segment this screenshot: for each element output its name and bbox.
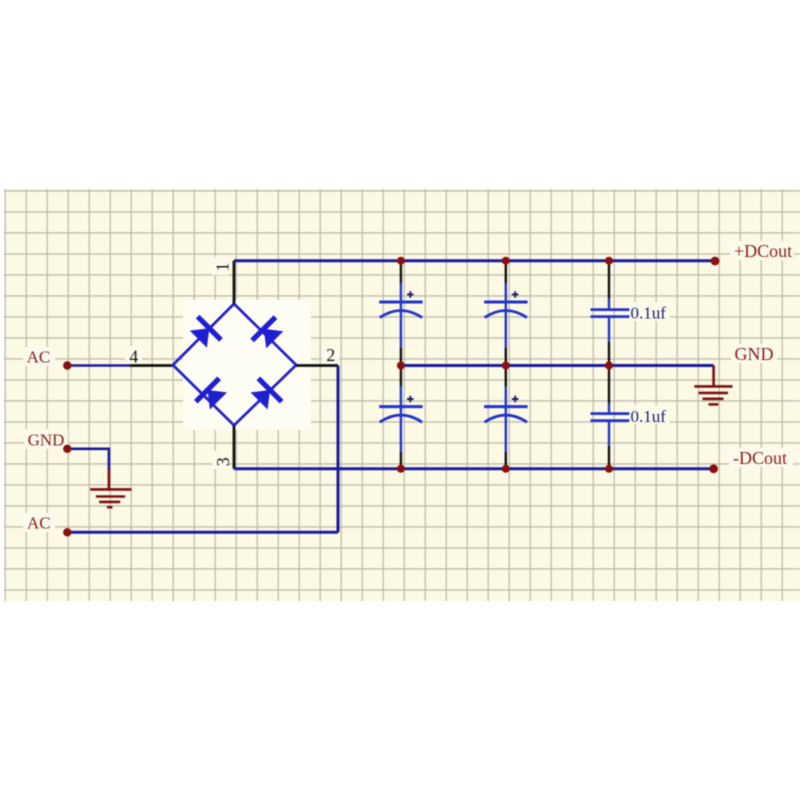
capacitor C2 leads (x=505.8 top) [505, 262, 507, 364]
wire AC2 vertical [337, 366, 340, 533]
capacitor C4 leads (x=505.8 bottom) [505, 367, 507, 468]
ground symbol left [90, 469, 131, 507]
ground symbol right [694, 366, 732, 405]
svg-text:GND: GND [735, 344, 774, 364]
terminal dots left [63, 361, 71, 536]
svg-text:-DCout: -DCout [733, 448, 787, 468]
diode D4 (lower-right edge, points NE) [247, 378, 281, 412]
capacitor C5 leads (0.1uf top) [608, 262, 610, 364]
svg-text:2: 2 [326, 345, 335, 365]
wire AC1 to bridge [67, 364, 130, 367]
capacitor C4 plates [484, 407, 527, 423]
svg-text:0.1uf: 0.1uf [631, 407, 667, 426]
pin 1 (black stub up) [233, 261, 236, 304]
svg-text:0.1uf: 0.1uf [631, 304, 667, 323]
diode D1 (lower-left of top corner, points NE) [187, 317, 221, 351]
wire GND left [67, 449, 109, 469]
svg-text:4: 4 [129, 346, 138, 366]
GND rail [401, 364, 714, 367]
svg-text:+DCout: +DCout [734, 241, 792, 261]
junction dots +DC rail [397, 257, 719, 266]
capacitor C3 plates [379, 407, 422, 423]
svg-text:1: 1 [213, 263, 233, 272]
bridge component background [183, 300, 311, 430]
pin 4 (black stub) [130, 364, 173, 367]
svg-text:3: 3 [213, 457, 233, 466]
diode D2 (upper-right edge, points NW) [252, 317, 286, 351]
pin 2 (black stub right) [296, 364, 338, 367]
diode D3 (lower-left edge, points NW) [196, 378, 230, 412]
diode bridge outline [173, 304, 296, 426]
+DC rail [234, 259, 715, 262]
capacitor C6 leads (0.1uf bottom) [608, 367, 610, 468]
capacitor C1 plus sign [407, 291, 414, 298]
junction dots -DC rail [397, 464, 718, 473]
svg-text:AC: AC [27, 513, 51, 532]
junction dots GND rail [397, 362, 613, 370]
capacitor C1 leads (x=400.9 top) [400, 262, 402, 364]
capacitor C2 plates [484, 302, 527, 318]
label background boxes [23, 241, 794, 532]
wire AC2 horizontal [67, 531, 338, 534]
-DC rail [234, 467, 714, 470]
capacitor C3 leads (x=400.9 bottom) [400, 367, 402, 468]
capacitor C6 plates [591, 414, 630, 421]
capacitor C4 plus sign [512, 396, 519, 403]
pin 3 (black stub down) [233, 425, 236, 469]
svg-text:GND: GND [28, 431, 65, 450]
capacitor C5 plates [591, 310, 630, 317]
capacitor C1 plates [379, 302, 422, 318]
svg-text:AC: AC [27, 348, 51, 367]
capacitor C3 plus sign [407, 396, 414, 403]
capacitor C2 plus sign [512, 291, 519, 298]
